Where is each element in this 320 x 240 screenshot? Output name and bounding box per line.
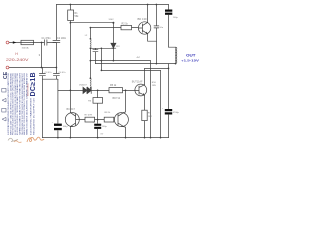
capacitor C9 [154,5,159,42]
inductor L1 [176,47,177,63]
svg-text:+: + [52,122,54,124]
junction T3 collector net [168,68,170,70]
resistor R2 [121,25,132,29]
cert icon 3 [2,98,6,102]
wire long vertical x70 [69,23,71,113]
svg-text:100µ: 100µ [102,126,108,128]
wire left vertical x56 [55,5,57,80]
wire T4 emitter [124,127,126,138]
junction rail at R9 [144,137,146,139]
wire T2 emitter [69,127,71,138]
wire bus1 y60.6 [90,60,150,62]
wire base link [95,119,105,121]
resistor R9 [142,110,147,120]
svg-text:SERIAL 003251 BATCH 15B CLASS: SERIAL 003251 BATCH 15B CLASS B EMC COMP… [25,72,28,135]
svg-text:R8 1k: R8 1k [105,112,112,114]
wire T3 collector [145,68,169,84]
junction L2 bottom [90,90,92,92]
svg-text:2R2: 2R2 [148,116,153,118]
capacitor C10 electrolytic [54,124,62,131]
cert icon 2 [2,108,6,112]
junction bus3 at x101 [101,70,103,72]
junction R6 top [97,90,99,92]
junction top rail at R1 [70,4,72,6]
svg-text:R7 47R: R7 47R [85,115,93,117]
junction zener bottom [113,47,115,49]
junction L2 coil start [90,38,92,40]
junction bus1 at x90 [90,60,92,62]
scribble orange 2 [14,141,22,143]
wire horizontal y27.6 [90,27,138,29]
capacitor C6 electrolytic [165,10,172,15]
junction T4 collector net [125,90,127,92]
node A R1 bottom [70,22,72,24]
wire T4 collector [124,90,126,113]
wire T1 collector [147,5,149,23]
wire T3 emitter [144,95,146,137]
capacitor C3 [39,68,45,80]
svg-text:BD 139: BD 139 [138,17,147,21]
wire horizontal y22.7 [70,22,113,24]
svg-text:OUT: OUT [186,54,197,58]
scribble pencil [8,138,18,141]
svg-text:BUT11AF: BUT11AF [132,80,143,83]
label mains voltage red [6,52,30,62]
wire vertical x156 to bus2 [155,41,157,63]
svg-text:56k: 56k [75,15,80,18]
resistor R8 [104,117,114,122]
svg-text:C2 100n: C2 100n [57,37,67,40]
svg-text:4k7: 4k7 [137,57,141,59]
cert icon 4 [2,88,6,92]
capacitor C8 [93,48,98,63]
capacitor C2 [53,40,60,42]
svg-text:1R5: 1R5 [152,85,157,87]
wire bottom rail [42,137,168,139]
junction rail at C5 [97,137,99,139]
wire zener column x113 [112,23,114,61]
junction rail at x160 [160,137,162,139]
junction bus2 at L1 [175,63,177,65]
junction bus2 at x156 [156,63,158,65]
svg-text:100mA: 100mA [22,47,29,50]
wire vertical x150.5 [150,61,152,138]
wire mains live [9,42,56,44]
wire top rail [56,4,168,6]
junction bus1 at x101 [101,60,103,62]
wire bus3 y70.4 [101,69,160,71]
junction fuse output [41,42,43,44]
svg-text:L2: L2 [85,35,88,37]
transistor T1 [138,22,150,34]
cert icon 1 [2,117,6,121]
svg-text:C4 47n: C4 47n [59,72,67,74]
svg-text:100µ: 100µ [63,126,69,128]
svg-text:R5 1k: R5 1k [110,84,117,87]
inductor L2 upper loops [89,39,92,48]
transistor T3 [135,84,147,96]
wire cap common bridge [42,78,58,80]
junction neutral at x56 [56,67,58,69]
svg-text:100µ: 100µ [173,17,179,19]
capacitor C7 electrolytic [165,109,172,115]
svg-text:R2 1k: R2 1k [122,23,129,26]
diode D1 [83,87,87,93]
svg-text:0V: 0V [101,134,104,136]
wire horizontal y48.3 [90,47,113,49]
transistor T2 [65,113,79,127]
svg-text:1N4007: 1N4007 [79,85,87,87]
junction T2 collector net [70,90,72,92]
svg-text:+1.5-15V: +1.5-15V [181,59,200,63]
junction rail at T4 emitter [125,137,127,139]
zener D3 [111,43,116,48]
node X between R7 and R8 [97,119,99,121]
terminal mains L [6,41,9,44]
wire vertical x160.5 [160,70,162,137]
svg-text:C1 470n: C1 470n [42,37,52,40]
transistor T4 [114,113,128,127]
fuse F1 [21,40,34,44]
inductor L2 column x90 [89,28,91,91]
svg-text:ELECTRONIC TRANSFORMER: ELECTRONIC TRANSFORMER [29,97,32,135]
resistor R7 [85,117,95,122]
resistor R1 [69,5,71,23]
svg-text:3: 3 [39,53,41,57]
wire vertical x168.5 lower [168,64,170,138]
diode D2 [87,87,91,93]
svg-text:R6: R6 [88,101,92,103]
svg-text:+: + [162,108,164,110]
svg-text:DC≥1B: DC≥1B [30,72,37,96]
wire vertical x101 [100,48,102,70]
svg-text:220-240V: 220-240V [6,58,30,62]
svg-text:H: H [15,52,18,56]
svg-text:12V: 12V [116,46,120,48]
svg-text:C3 47n: C3 47n [45,72,53,74]
junction top rail at C9 [156,4,158,6]
svg-text:4700µ: 4700µ [173,112,180,114]
wire diode row y90 [58,89,135,91]
svg-text:REGULATED DC SUPPLY 15V: REGULATED DC SUPPLY 15V [33,97,36,135]
wire ground vertical x42 [41,79,43,137]
junction L2 lower coil start [90,77,92,79]
svg-text:BD712: BD712 [113,97,121,100]
wire vertical x57.5 with corner at y90 [57,79,59,137]
block body text [7,72,36,135]
capacitor C5 electrolytic [94,124,101,129]
junction neutral at x41.5 [41,67,43,69]
junction rail at C10 [57,137,59,139]
junction bus1 at x113 [113,60,115,62]
arrow mains [13,41,17,43]
capacitor C1 [44,40,47,46]
wire bus2 y63.6 [95,63,175,65]
node B zener top [112,22,114,24]
junction top rail at T1 collector [147,4,149,6]
wire mains neutral [9,67,56,69]
wire T1 emitter to x156 [148,34,157,41]
junction C8 top [101,47,103,49]
junction rail at x150 [150,137,152,139]
svg-text:R10: R10 [152,82,157,84]
svg-text:310V: 310V [109,19,115,21]
label output blue [181,54,200,63]
svg-text:10n: 10n [159,27,163,29]
junction L2 top [90,27,92,29]
wire corner to coil [169,46,176,48]
terminal mains N [6,66,9,69]
logo block rotated [2,71,37,135]
wire switch vertical x41.5 [41,43,43,68]
inductor L2 lower loops [89,78,92,87]
junction L2 mid at y48 [90,47,92,49]
svg-text:BC 547: BC 547 [67,108,76,111]
resistor R6 [97,90,99,120]
junction rail at T2 emitter [70,137,72,139]
resistor R5 [109,88,123,93]
capacitor C4 [53,74,59,76]
scribble orange 1 [27,137,44,142]
